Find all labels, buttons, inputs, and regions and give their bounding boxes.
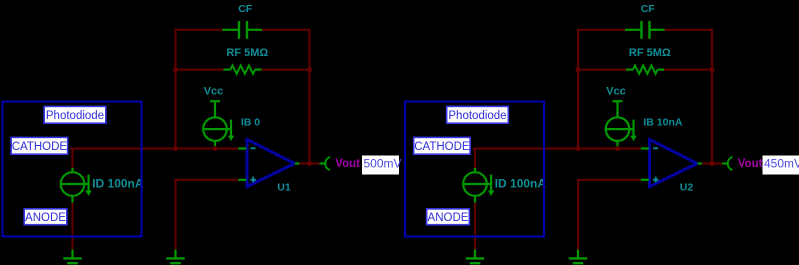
junction node (left circuit) <box>173 146 178 151</box>
svg-text:Vout: Vout <box>335 158 360 170</box>
svg-text:RF 5MΩ: RF 5MΩ <box>629 47 671 59</box>
svg-text:U2: U2 <box>680 181 694 193</box>
svg-text:ANODE: ANODE <box>428 212 469 224</box>
svg-text:CF: CF <box>238 3 253 15</box>
resistor RF 5M ohm (right circuit) <box>626 65 664 73</box>
svg-text:IB 0: IB 0 <box>241 116 260 128</box>
wire: feedback left vertical (right circuit) <box>577 29 579 149</box>
current source ID 100nA (photodiode) (right circuit) <box>463 168 494 203</box>
junction node (right circuit) <box>615 146 620 151</box>
current source ID 100nA (photodiode) (left circuit) <box>61 168 92 203</box>
wire: photodiode cathode drop (right circuit) <box>474 149 476 169</box>
op-amp U2 (right circuit) <box>641 139 702 186</box>
ground (photodiode anode) (right circuit) <box>466 250 484 264</box>
photodiode subcircuit box (right circuit) <box>405 102 544 237</box>
label ANODE (left circuit) <box>24 209 67 225</box>
junction node (right circuit) <box>709 67 714 72</box>
label CATHODE (left circuit) <box>11 137 67 154</box>
svg-text:CATHODE: CATHODE <box>12 141 68 153</box>
op-amp U1 (left circuit) <box>238 139 299 186</box>
wire: feedback left vertical (left circuit) <box>174 29 176 149</box>
measured value 450mV (right circuit) <box>763 156 799 175</box>
output probe (left circuit) <box>320 157 330 170</box>
wire: inverting input net from CATHODE (left circuit) <box>70 147 238 149</box>
svg-text:Photodiode: Photodiode <box>46 110 104 122</box>
power symbol Vcc (right circuit) <box>613 101 623 117</box>
svg-text:CATHODE: CATHODE <box>414 141 470 153</box>
label ANODE (right circuit) <box>427 209 470 225</box>
svg-text:U1: U1 <box>277 181 291 193</box>
measured value 500mV (left circuit) <box>362 156 402 175</box>
wire: op-amp output to probe (left circuit) <box>299 162 319 164</box>
resistor RF 5M ohm (left circuit) <box>224 65 262 73</box>
ground (photodiode anode) (left circuit) <box>63 250 81 264</box>
junction node (right circuit) <box>575 67 580 72</box>
photodiode subcircuit box (left circuit) <box>3 102 142 237</box>
junction node (left circuit) <box>307 161 312 166</box>
svg-text:ID 100nA: ID 100nA <box>92 176 144 190</box>
wire: photodiode anode to ground (left circuit) <box>71 203 73 250</box>
svg-text:Vout: Vout <box>738 158 763 170</box>
wire: inverting input net from CATHODE (right circuit) <box>473 147 641 149</box>
power symbol Vcc (left circuit) <box>210 101 220 117</box>
wire: feedback RF horizontal net (right circuit) <box>578 68 712 70</box>
wire: non-inverting input horizontal (left circuit) <box>176 179 239 181</box>
svg-text:500mV: 500mV <box>364 156 402 170</box>
label CATHODE (right circuit) <box>414 137 470 154</box>
wire: op-amp output to probe (right circuit) <box>702 162 722 164</box>
capacitor CF (right circuit) <box>625 21 665 39</box>
wire: feedback right vertical to output (left circuit) <box>308 29 310 164</box>
junction node (left circuit) <box>307 67 312 72</box>
label Photodiode (right circuit) <box>447 106 509 123</box>
wire: feedback top (CF) horizontal net (left circuit) <box>176 29 310 31</box>
svg-text:Vcc: Vcc <box>204 86 224 98</box>
wire: non-inverting input vertical to ground (left circuit) <box>174 179 176 250</box>
svg-text:450mV: 450mV <box>764 156 799 170</box>
wire: feedback top (CF) horizontal net (right circuit) <box>578 29 712 31</box>
svg-text:RF 5MΩ: RF 5MΩ <box>226 47 268 59</box>
junction node (left circuit) <box>212 146 217 151</box>
wire: photodiode cathode drop (left circuit) <box>71 149 73 169</box>
wire: feedback right vertical to output (right circuit) <box>711 29 713 164</box>
wire: photodiode anode to ground (right circuit) <box>474 203 476 250</box>
wire: non-inverting input horizontal (right circuit) <box>578 179 641 181</box>
svg-text:ID 100nA: ID 100nA <box>495 176 547 190</box>
current source IB (right circuit) <box>606 117 637 148</box>
svg-text:IB 10nA: IB 10nA <box>643 116 683 128</box>
junction node (right circuit) <box>709 161 714 166</box>
svg-text:Photodiode: Photodiode <box>448 110 506 122</box>
wire: non-inverting input vertical to ground (right circuit) <box>577 179 579 250</box>
ground (non-inverting input) (right circuit) <box>569 250 587 264</box>
output probe (right circuit) <box>722 157 732 170</box>
svg-text:CF: CF <box>641 3 656 15</box>
ground (non-inverting input) (left circuit) <box>166 250 184 264</box>
svg-text:ANODE: ANODE <box>25 212 66 224</box>
junction node (left circuit) <box>173 67 178 72</box>
label Photodiode (left circuit) <box>44 106 106 123</box>
junction node (right circuit) <box>575 146 580 151</box>
current source IB (left circuit) <box>203 117 234 148</box>
capacitor CF (left circuit) <box>223 21 263 39</box>
svg-text:Vcc: Vcc <box>606 86 626 98</box>
wire: feedback RF horizontal net (left circuit) <box>176 68 310 70</box>
